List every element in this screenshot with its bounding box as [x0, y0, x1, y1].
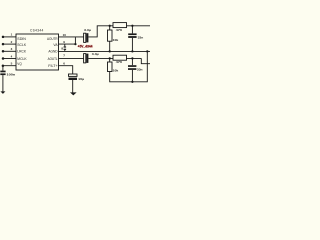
resistor R3 10k [108, 62, 113, 72]
svg-text:CS4344: CS4344 [30, 29, 44, 33]
node pin3 end [2, 50, 5, 53]
wire [110, 51, 148, 81]
svg-text:AGND: AGND [48, 50, 58, 54]
wire [141, 58, 150, 63]
svg-text:470: 470 [116, 60, 123, 64]
node junction [131, 57, 133, 59]
svg-text:+5V_4344: +5V_4344 [78, 45, 93, 49]
svg-text:AOUTL: AOUTL [48, 57, 58, 61]
wire [109, 41, 111, 51]
node pin5 end [2, 64, 5, 67]
node junction [109, 25, 111, 27]
node pin2 end [2, 43, 5, 46]
wire [72, 80, 74, 93]
wire [3, 43, 16, 45]
wire [88, 26, 150, 37]
wire [59, 36, 84, 38]
wire [2, 75, 4, 92]
svg-text:AOUTR: AOUTR [47, 37, 58, 41]
wire [3, 50, 16, 52]
svg-text:SDIN: SDIN [17, 37, 26, 41]
wire [3, 66, 16, 71]
svg-text:10k: 10k [113, 69, 119, 73]
node pin1 end [2, 36, 5, 39]
svg-text:33n: 33n [138, 35, 144, 39]
wire [59, 43, 76, 45]
capacitor C7 33n left channel [128, 65, 136, 70]
wire [109, 58, 111, 62]
wire [131, 26, 133, 34]
IC U1 CS4344 DAC [16, 34, 59, 70]
wire [59, 66, 73, 74]
capacitor C3 10u FILT+ [69, 74, 78, 80]
wire [59, 50, 151, 52]
node junction [109, 57, 111, 59]
node junction [109, 50, 111, 52]
capacitor C1 100n [0, 71, 5, 76]
wire [59, 57, 84, 59]
svg-text:470: 470 [116, 28, 123, 32]
wire [3, 58, 16, 60]
svg-text:3.3µ: 3.3µ [84, 28, 91, 32]
node junction [131, 50, 133, 52]
svg-text:10k: 10k [113, 38, 119, 42]
capacitor C2 VA decoupling [64, 44, 67, 51]
node junction [74, 43, 76, 45]
ground [0, 91, 5, 94]
wire [131, 38, 133, 52]
ground [70, 92, 77, 95]
resistor R2 470 [113, 23, 127, 28]
capacitor C4 3.3u AOUTR [84, 33, 89, 42]
svg-text:LRCK: LRCK [17, 50, 27, 54]
svg-text:MCLK: MCLK [17, 57, 27, 61]
node junction [131, 25, 133, 27]
svg-text:FILT+: FILT+ [48, 64, 57, 68]
capacitor C6 3.3u AOUTL [84, 54, 89, 63]
capacitor C5 33n right channel [128, 33, 136, 37]
svg-text:100n: 100n [7, 73, 16, 77]
node junction [146, 50, 148, 52]
wire [131, 58, 133, 65]
node junction [131, 81, 133, 83]
svg-text:VQ: VQ [17, 62, 22, 66]
svg-text:10: 10 [63, 33, 67, 37]
wire [3, 36, 16, 38]
svg-text:33n: 33n [137, 68, 143, 72]
wire [109, 26, 111, 30]
svg-text:3.3µ: 3.3µ [92, 52, 99, 56]
svg-text:10µ: 10µ [78, 77, 84, 81]
node pin4 end [2, 57, 5, 60]
svg-text:SCLK: SCLK [17, 43, 27, 47]
wire [131, 70, 133, 82]
resistor R1 10k [108, 30, 113, 41]
resistor R4 470 [113, 55, 127, 60]
wire [88, 57, 141, 59]
node +5V [74, 37, 76, 44]
